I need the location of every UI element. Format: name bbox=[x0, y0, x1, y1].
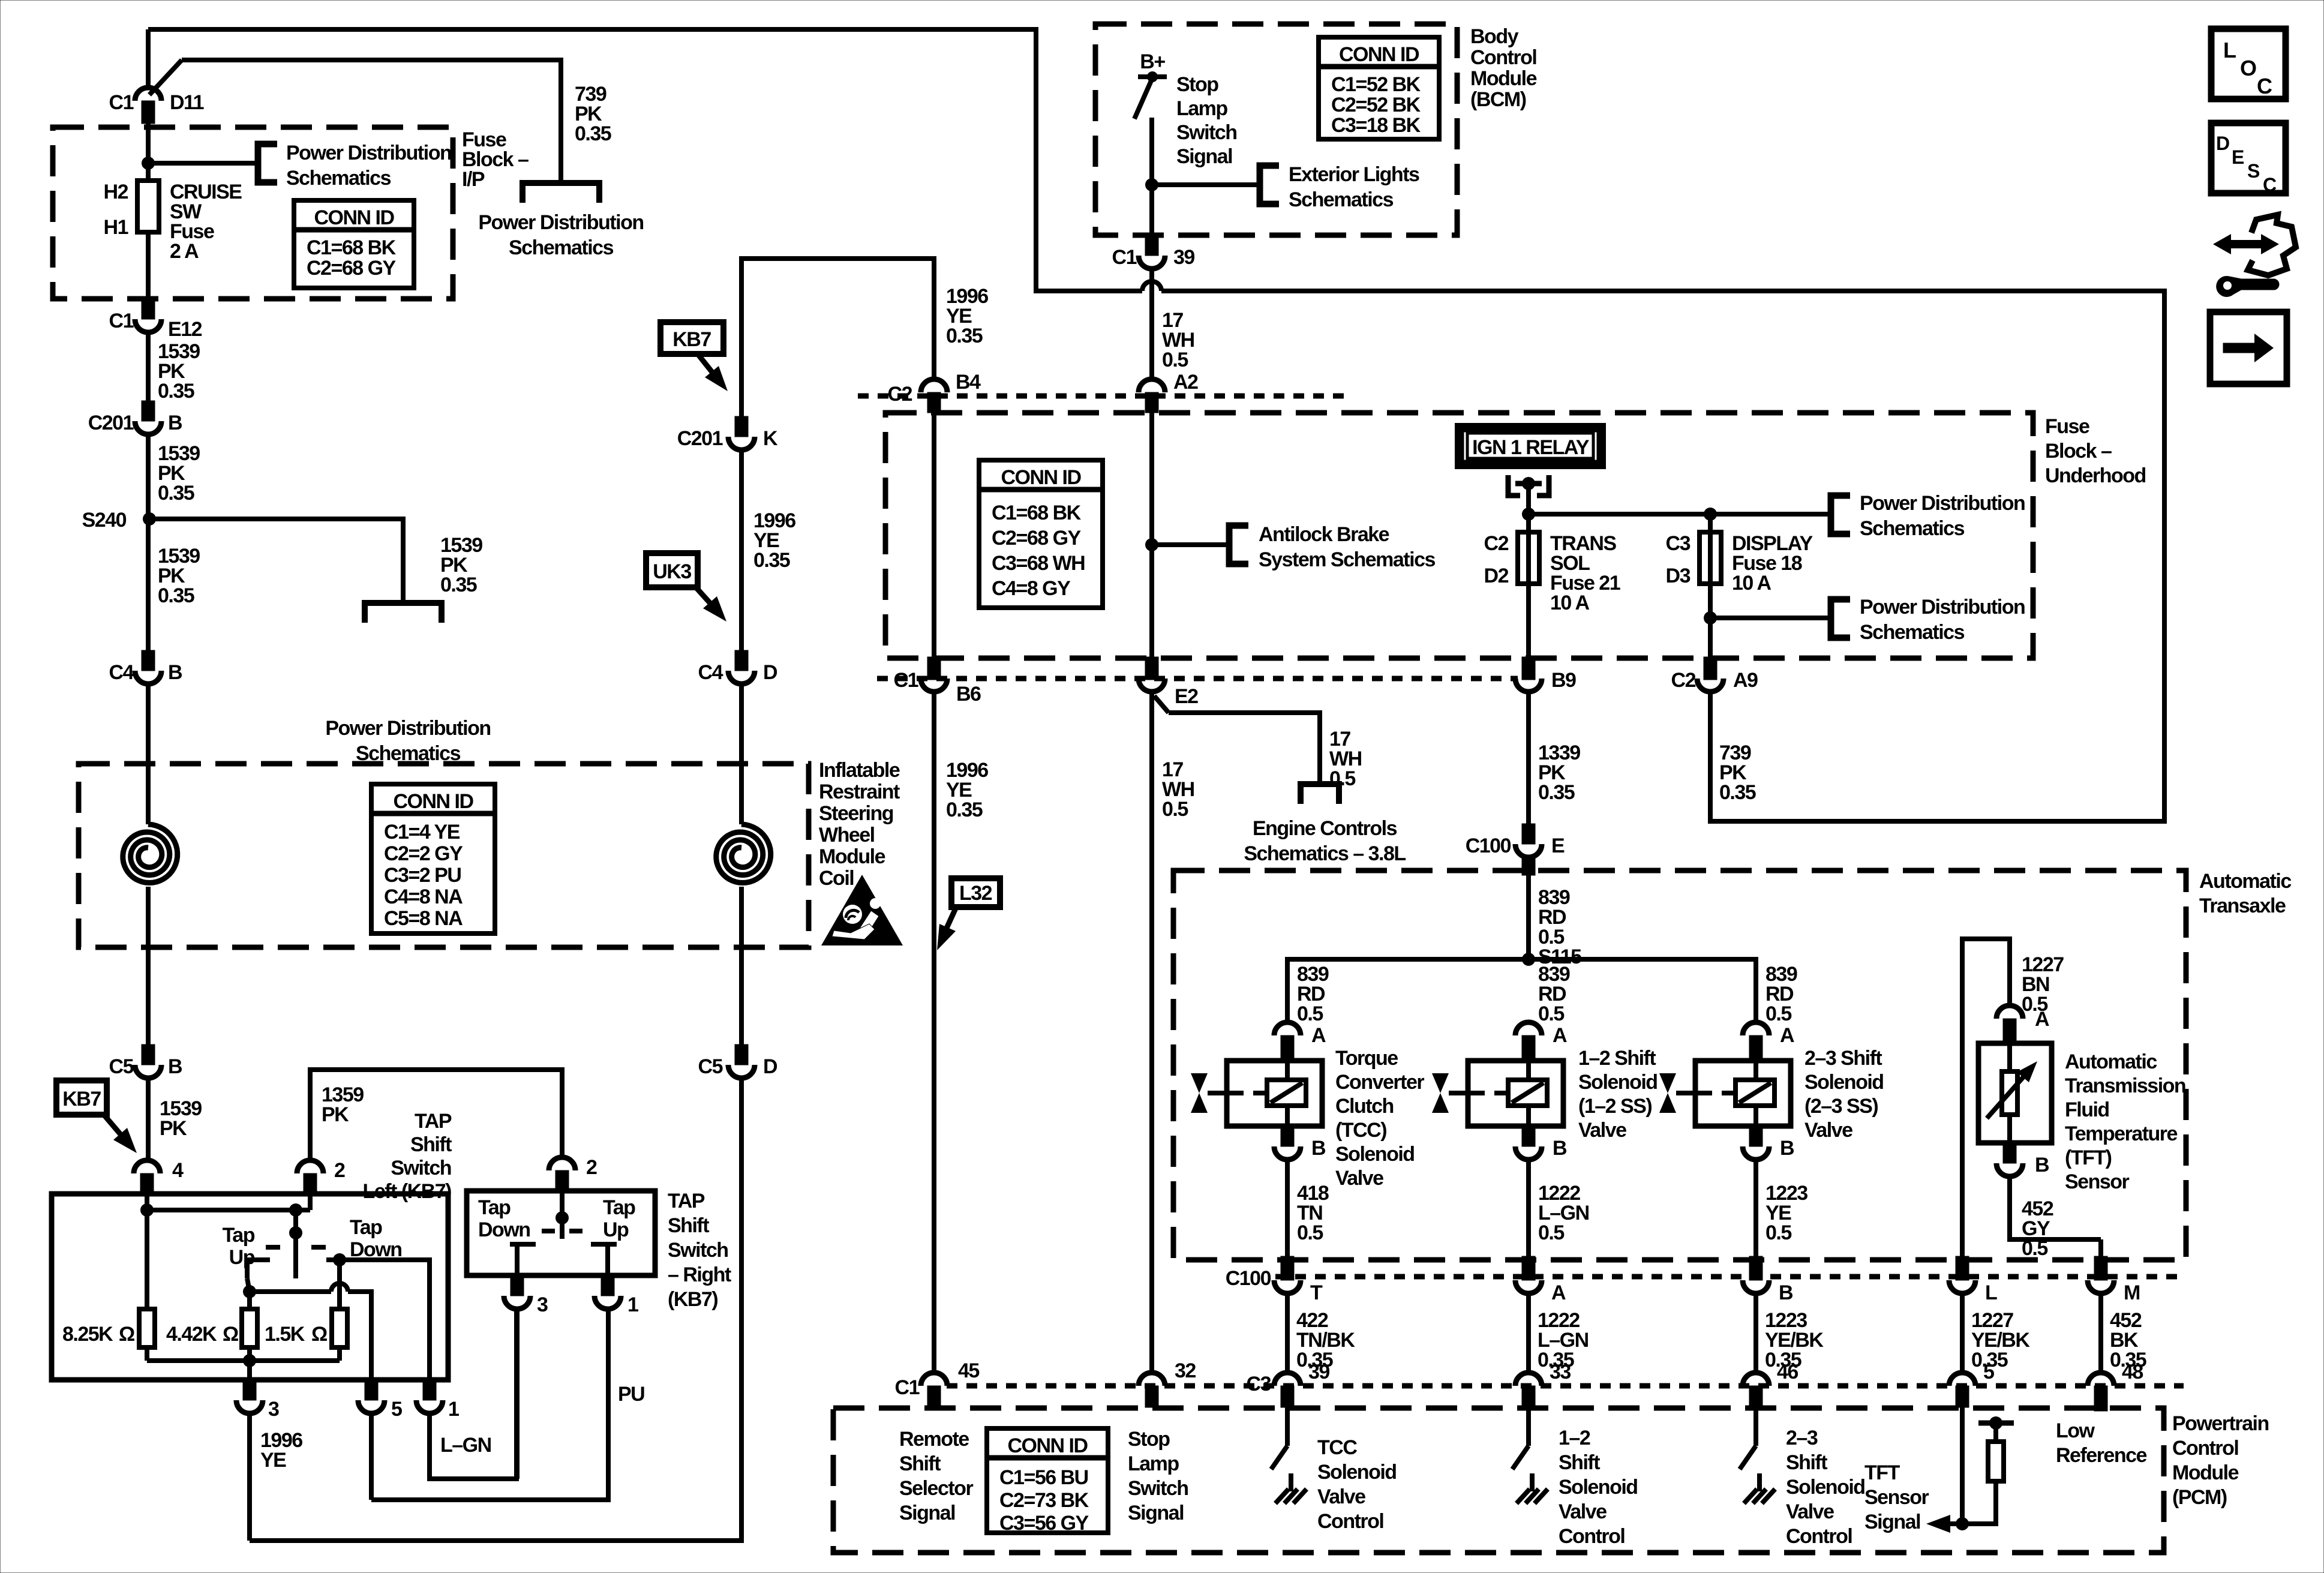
PCM pin 48 bbox=[2088, 1373, 2114, 1386]
svg-text:Switch: Switch bbox=[1176, 121, 1237, 144]
svg-text:C1: C1 bbox=[109, 91, 134, 114]
svg-text:B: B bbox=[2035, 1154, 2049, 1176]
S115 bus bbox=[1287, 959, 1756, 1022]
svg-text:C1: C1 bbox=[109, 310, 134, 332]
1-2 SS pin B bbox=[1522, 1126, 1535, 1146]
connector C100 B bbox=[1749, 1256, 1762, 1280]
svg-text:Power Distribution: Power Distribution bbox=[478, 211, 643, 234]
conn-id box PCM bbox=[987, 1428, 1108, 1533]
svg-text:Valve: Valve bbox=[1786, 1500, 1834, 1523]
svg-text:5: 5 bbox=[1983, 1361, 1994, 1383]
connector C1 E12 bbox=[142, 299, 155, 319]
PCM pullup resistor bbox=[1962, 1481, 1996, 1524]
svg-text:C2=73 BK: C2=73 BK bbox=[999, 1489, 1089, 1512]
svg-text:Stop: Stop bbox=[1176, 73, 1218, 96]
wire A2 down bbox=[1149, 413, 1154, 658]
svg-text:Reference: Reference bbox=[2056, 1444, 2147, 1467]
svg-text:Block –: Block – bbox=[2045, 440, 2112, 463]
svg-text:C3: C3 bbox=[1247, 1373, 1271, 1395]
svg-text:C: C bbox=[2257, 74, 2272, 98]
wire relay to display fuse bbox=[1529, 512, 1710, 517]
connector C2 A9 bbox=[1708, 618, 1713, 658]
resistor 8.25K bbox=[145, 1210, 149, 1309]
svg-text:Fuse: Fuse bbox=[2045, 415, 2089, 438]
svg-text:4: 4 bbox=[172, 1159, 184, 1182]
branch power distribution upper bbox=[1710, 512, 1831, 517]
connector A2 bbox=[1139, 379, 1165, 392]
connector C201 B bbox=[142, 401, 155, 421]
svg-text:PU: PU bbox=[618, 1383, 644, 1406]
svg-text:Transaxle: Transaxle bbox=[2199, 894, 2286, 917]
svg-text:Module: Module bbox=[819, 845, 885, 868]
wire 739 PK bus from I/P fuse block to underhood A9 bbox=[148, 29, 1139, 291]
svg-text:M: M bbox=[2124, 1281, 2140, 1304]
wire B4 to C201K bbox=[741, 259, 934, 416]
svg-text:D3: D3 bbox=[1666, 565, 1691, 587]
svg-text:KB7: KB7 bbox=[672, 328, 711, 351]
connector C100 L bbox=[1956, 1256, 1969, 1280]
svg-text:S240: S240 bbox=[82, 509, 127, 532]
conn-id box BCM bbox=[1319, 37, 1439, 139]
IGN 1 RELAY box bbox=[1455, 423, 1606, 469]
svg-text:Power Distribution: Power Distribution bbox=[325, 717, 490, 740]
svg-text:Schematics: Schematics bbox=[1289, 188, 1394, 211]
goto symbol engine controls bbox=[1301, 784, 1339, 804]
E2 branch to engine controls bbox=[1154, 696, 1169, 713]
2-3 driver switch bbox=[1753, 1407, 1758, 1446]
svg-text:0.35: 0.35 bbox=[575, 122, 611, 145]
svg-text:Solenoid: Solenoid bbox=[1317, 1461, 1397, 1484]
svg-text:C1: C1 bbox=[1112, 246, 1137, 269]
svg-text:Transmission: Transmission bbox=[2065, 1074, 2185, 1097]
conn-id box underhood bbox=[979, 460, 1103, 608]
right tap up contact bbox=[591, 1242, 617, 1247]
connector C5 B bbox=[142, 1044, 155, 1065]
TAP shift switch right box bbox=[467, 1191, 655, 1275]
svg-text:0.5: 0.5 bbox=[2022, 1237, 2047, 1260]
svg-text:CONN ID: CONN ID bbox=[1339, 43, 1419, 66]
svg-text:Valve: Valve bbox=[1578, 1119, 1626, 1142]
svg-text:Schematics: Schematics bbox=[509, 236, 614, 259]
svg-text:E2: E2 bbox=[1175, 685, 1198, 708]
icon vehicle double-arrow bbox=[2213, 234, 2279, 254]
svg-text:C4: C4 bbox=[109, 661, 134, 684]
svg-text:TAP: TAP bbox=[668, 1190, 705, 1212]
svg-text:2–3 Shift: 2–3 Shift bbox=[1804, 1047, 1882, 1070]
svg-text:B6: B6 bbox=[956, 683, 981, 706]
svg-text:C2=68 GY: C2=68 GY bbox=[992, 527, 1082, 550]
svg-text:Schematics: Schematics bbox=[1860, 517, 1965, 540]
svg-text:H1: H1 bbox=[104, 216, 128, 239]
svg-text:Fluid: Fluid bbox=[2065, 1098, 2109, 1121]
pin 1 left sw bbox=[423, 1380, 436, 1400]
svg-text:Signal: Signal bbox=[1176, 145, 1232, 168]
svg-text:Valve: Valve bbox=[1317, 1485, 1365, 1508]
wire tapdown to resistor bbox=[337, 1260, 342, 1309]
icon arrow box bbox=[2210, 312, 2287, 384]
TAP shift switch left box bbox=[52, 1194, 448, 1380]
relay output pins bbox=[1508, 475, 1520, 496]
svg-text:A9: A9 bbox=[1733, 669, 1758, 692]
svg-text:3: 3 bbox=[268, 1398, 279, 1421]
PCM pin 32 bbox=[1139, 1373, 1165, 1386]
svg-text:IGN 1 RELAY: IGN 1 RELAY bbox=[1472, 436, 1590, 459]
svg-text:Switch: Switch bbox=[391, 1157, 451, 1179]
wire into cruise fuse bbox=[146, 124, 151, 181]
PCM pin 46 bbox=[1743, 1373, 1769, 1386]
svg-text:Tap: Tap bbox=[603, 1196, 635, 1219]
airbag warning triangle bbox=[821, 875, 903, 945]
svg-text:C3=56 GY: C3=56 GY bbox=[999, 1512, 1089, 1535]
svg-text:YE: YE bbox=[260, 1449, 286, 1472]
svg-text:C1: C1 bbox=[895, 1376, 920, 1399]
svg-text:I/P: I/P bbox=[462, 168, 485, 191]
svg-text:Temperature: Temperature bbox=[2065, 1122, 2178, 1145]
svg-text:Solenoid: Solenoid bbox=[1786, 1476, 1865, 1499]
svg-text:C2=52 BK: C2=52 BK bbox=[1331, 94, 1421, 116]
svg-text:46: 46 bbox=[1777, 1361, 1798, 1383]
svg-text:0.5: 0.5 bbox=[1297, 1221, 1323, 1244]
svg-text:Signal: Signal bbox=[1864, 1511, 1920, 1533]
conn-id box coil bbox=[371, 784, 495, 933]
fine dash row top bbox=[858, 394, 1344, 399]
connector C100 T bbox=[1281, 1256, 1294, 1280]
svg-text:(1–2 SS): (1–2 SS) bbox=[1578, 1095, 1652, 1118]
svg-text:Solenoid: Solenoid bbox=[1578, 1071, 1658, 1094]
svg-text:Ω: Ω bbox=[311, 1323, 327, 1346]
svg-text:Low: Low bbox=[2056, 1419, 2095, 1442]
svg-text:Control: Control bbox=[1470, 46, 1536, 69]
wire to C1 39 bbox=[1149, 185, 1154, 235]
pin 3 right sw bbox=[511, 1275, 524, 1296]
svg-text:Power Distribution: Power Distribution bbox=[1860, 596, 2025, 619]
svg-text:Tap: Tap bbox=[223, 1224, 255, 1247]
svg-text:C5: C5 bbox=[698, 1055, 723, 1078]
pin 3 left sw bbox=[243, 1380, 256, 1400]
svg-text:C1=56 BU: C1=56 BU bbox=[999, 1466, 1088, 1489]
PCM pin C3 39 bbox=[1274, 1373, 1301, 1386]
svg-text:Shift: Shift bbox=[410, 1133, 452, 1156]
svg-text:B: B bbox=[1780, 1137, 1794, 1160]
svg-text:(TFT): (TFT) bbox=[2065, 1146, 2112, 1169]
svg-text:Solenoid: Solenoid bbox=[1335, 1143, 1415, 1166]
wire tapup to pin5 bbox=[243, 1285, 256, 1298]
svg-text:Clutch: Clutch bbox=[1335, 1095, 1394, 1118]
svg-text:Sensor: Sensor bbox=[2065, 1170, 2130, 1193]
svg-text:Switch: Switch bbox=[668, 1239, 728, 1262]
svg-text:0.5: 0.5 bbox=[1765, 1002, 1791, 1025]
svg-text:PK: PK bbox=[322, 1103, 349, 1126]
svg-text:Signal: Signal bbox=[899, 1502, 955, 1524]
svg-text:1.5K: 1.5K bbox=[265, 1323, 305, 1346]
svg-text:C2: C2 bbox=[1671, 669, 1696, 692]
svg-text:E12: E12 bbox=[168, 318, 202, 341]
PCM pin 5 bbox=[1949, 1373, 1975, 1386]
svg-text:Module: Module bbox=[1470, 67, 1537, 90]
tap down contact bbox=[333, 1253, 346, 1266]
svg-text:Schematics: Schematics bbox=[286, 167, 391, 190]
svg-text:C3=2 PU: C3=2 PU bbox=[384, 864, 461, 887]
svg-text:Converter: Converter bbox=[1335, 1071, 1424, 1094]
svg-text:B: B bbox=[1311, 1137, 1326, 1160]
fuse TRANS SOL 21 bbox=[1518, 532, 1539, 584]
TCC pin B bbox=[1281, 1126, 1294, 1146]
resistor bottom bus bbox=[147, 1358, 340, 1363]
svg-text:Valve: Valve bbox=[1804, 1119, 1852, 1142]
fuse block I/P dashed box bbox=[53, 127, 453, 299]
svg-text:Torque: Torque bbox=[1335, 1047, 1398, 1070]
svg-text:E: E bbox=[2232, 146, 2244, 168]
coil right (clockspring) bbox=[716, 824, 771, 883]
pin 2 left bbox=[297, 1160, 323, 1173]
svg-text:C3=18 BK: C3=18 BK bbox=[1331, 114, 1421, 137]
svg-text:PK: PK bbox=[160, 1117, 187, 1140]
right tap down contact bbox=[510, 1242, 536, 1247]
svg-text:Body: Body bbox=[1470, 25, 1519, 48]
svg-text:Schematics: Schematics bbox=[1860, 621, 1965, 644]
svg-text:Tap: Tap bbox=[478, 1196, 511, 1219]
2-3 SS pin A bbox=[1743, 1022, 1769, 1035]
svg-text:Stop: Stop bbox=[1128, 1428, 1170, 1451]
svg-text:0.35: 0.35 bbox=[158, 482, 194, 505]
svg-text:TFT: TFT bbox=[1864, 1461, 1900, 1484]
svg-text:UK3: UK3 bbox=[653, 560, 691, 583]
automatic transaxle dashed box bbox=[1173, 870, 2186, 1260]
svg-text:Power Distribution: Power Distribution bbox=[1860, 492, 2025, 515]
wire tapdown to pin1 bbox=[340, 1260, 430, 1380]
svg-text:0.35: 0.35 bbox=[946, 798, 983, 821]
svg-text:E: E bbox=[1551, 834, 1565, 857]
svg-text:Control: Control bbox=[1559, 1525, 1625, 1548]
TFT pin A bbox=[1996, 1005, 2023, 1019]
svg-text:Shift: Shift bbox=[899, 1452, 941, 1475]
svg-text:Shift: Shift bbox=[1559, 1451, 1600, 1474]
svg-text:L32: L32 bbox=[959, 882, 992, 905]
svg-text:2–3: 2–3 bbox=[1786, 1427, 1818, 1449]
connector C2 B4 bbox=[921, 379, 947, 392]
right switch mechanism bbox=[560, 1191, 565, 1239]
svg-text:C4=8 NA: C4=8 NA bbox=[384, 885, 463, 908]
svg-text:B: B bbox=[168, 1055, 182, 1078]
connector E2 bbox=[1145, 657, 1158, 680]
svg-text:4.42K: 4.42K bbox=[166, 1323, 217, 1346]
svg-text:Power Distribution: Power Distribution bbox=[286, 142, 451, 164]
svg-text:TCC: TCC bbox=[1317, 1436, 1357, 1459]
1-2 driver switch bbox=[1526, 1407, 1531, 1446]
svg-text:S: S bbox=[2247, 160, 2260, 182]
wire pin5 to right pin1 (PU) bbox=[371, 1309, 608, 1500]
splice S115 bbox=[1522, 953, 1535, 966]
svg-text:– Right: – Right bbox=[668, 1263, 731, 1286]
branch to power distribution bracket bbox=[148, 161, 258, 166]
inflatable restraint coil dashed box bbox=[79, 764, 809, 947]
svg-text:C4=8 GY: C4=8 GY bbox=[992, 577, 1071, 600]
icon DESC box bbox=[2211, 123, 2286, 193]
wire pin4 into box bbox=[145, 1194, 149, 1210]
svg-text:C1=52 BK: C1=52 BK bbox=[1331, 73, 1421, 96]
svg-text:Ω: Ω bbox=[223, 1323, 238, 1346]
fuse block underhood dashed box bbox=[885, 413, 2033, 658]
svg-text:0.35: 0.35 bbox=[158, 584, 194, 607]
connector C100 E bbox=[1522, 824, 1535, 844]
svg-text:Engine Controls: Engine Controls bbox=[1253, 817, 1397, 840]
svg-text:L: L bbox=[2223, 38, 2236, 62]
svg-text:45: 45 bbox=[958, 1359, 979, 1382]
svg-text:Solenoid: Solenoid bbox=[1804, 1071, 1884, 1094]
wire fuse21 to B9 bbox=[1526, 584, 1531, 658]
svg-text:C100: C100 bbox=[1466, 834, 1511, 857]
svg-text:0.35: 0.35 bbox=[1719, 781, 1756, 804]
svg-text:8.25K: 8.25K bbox=[62, 1323, 113, 1346]
fine dash row bottom bbox=[877, 676, 1518, 682]
svg-text:Automatic: Automatic bbox=[2199, 870, 2291, 893]
svg-text:2 A: 2 A bbox=[170, 240, 199, 263]
svg-text:0.35: 0.35 bbox=[440, 574, 477, 596]
svg-text:5: 5 bbox=[391, 1398, 402, 1421]
svg-text:Remote: Remote bbox=[899, 1428, 969, 1451]
svg-text:Signal: Signal bbox=[1128, 1502, 1184, 1524]
connector C1 39 bbox=[1145, 235, 1158, 256]
svg-text:0.35: 0.35 bbox=[1538, 781, 1575, 804]
svg-text:Selector: Selector bbox=[899, 1477, 973, 1500]
svg-text:C100: C100 bbox=[1226, 1267, 1271, 1290]
svg-text:A: A bbox=[1311, 1024, 1326, 1047]
TFT signal node bbox=[1960, 1407, 1965, 1524]
svg-text:Shift: Shift bbox=[1786, 1451, 1827, 1474]
pin 4 bbox=[134, 1160, 160, 1173]
connector B9 bbox=[1522, 657, 1535, 680]
svg-text:B: B bbox=[168, 661, 182, 684]
svg-text:C2=2 GY: C2=2 GY bbox=[384, 842, 463, 865]
svg-text:Restraint: Restraint bbox=[819, 781, 900, 803]
svg-text:Ω: Ω bbox=[119, 1323, 134, 1346]
svg-text:Up: Up bbox=[603, 1218, 629, 1241]
svg-text:Shift: Shift bbox=[668, 1214, 709, 1237]
connector C4 B bbox=[142, 650, 155, 671]
solenoid 1-2 SS bbox=[1468, 1061, 1563, 1126]
PCM pin 33 bbox=[1515, 1373, 1542, 1386]
wire L to TFT A bbox=[1962, 939, 2010, 1239]
svg-text:System Schematics: System Schematics bbox=[1259, 548, 1435, 571]
coil left (clockspring) bbox=[123, 824, 178, 883]
fine dash row PCM bbox=[947, 1383, 2184, 1389]
TFT pin B bbox=[2003, 1143, 2016, 1163]
svg-text:2: 2 bbox=[586, 1156, 597, 1179]
wire S240 branch right bbox=[149, 519, 403, 603]
wire pin2-pin2 jumper bbox=[310, 1070, 562, 1160]
goto symbol Power Distribution (S240) bbox=[365, 603, 442, 623]
solenoid TCC bbox=[1227, 1061, 1322, 1126]
svg-text:O: O bbox=[2240, 56, 2256, 80]
svg-text:Down: Down bbox=[478, 1218, 530, 1241]
svg-text:0.5: 0.5 bbox=[1162, 349, 1188, 371]
svg-text:Valve: Valve bbox=[1559, 1500, 1607, 1523]
svg-text:Control: Control bbox=[1317, 1510, 1383, 1533]
label UK3 bbox=[646, 553, 698, 587]
icon wrench bbox=[2217, 276, 2279, 296]
PCM pin C1 45 bbox=[921, 1373, 947, 1386]
svg-text:Inflatable: Inflatable bbox=[819, 759, 900, 782]
svg-text:CONN ID: CONN ID bbox=[314, 206, 394, 229]
svg-text:Steering: Steering bbox=[819, 802, 893, 825]
goto symbol Power Distribution (top) bbox=[523, 183, 599, 203]
svg-text:1: 1 bbox=[448, 1398, 459, 1421]
svg-text:D: D bbox=[763, 1055, 777, 1078]
svg-text:Valve: Valve bbox=[1335, 1167, 1383, 1190]
connector C1 D11 bbox=[146, 29, 151, 88]
switch common rail bbox=[140, 1203, 154, 1217]
solenoid 2-3 SS bbox=[1695, 1061, 1791, 1126]
svg-text:0.5: 0.5 bbox=[1329, 767, 1355, 790]
1-2 SS pin A bbox=[1515, 1022, 1542, 1035]
svg-text:A2: A2 bbox=[1173, 371, 1198, 394]
svg-text:Control: Control bbox=[1786, 1525, 1852, 1548]
svg-text:Module: Module bbox=[2172, 1461, 2239, 1484]
tap up/down switch left bbox=[293, 1210, 298, 1278]
connector C201 K bbox=[735, 416, 748, 437]
svg-text:B: B bbox=[1553, 1137, 1567, 1160]
svg-text:A: A bbox=[1553, 1024, 1567, 1047]
svg-text:B: B bbox=[1779, 1281, 1793, 1304]
svg-text:0.35: 0.35 bbox=[158, 380, 194, 403]
resistor 4.42K bbox=[247, 1292, 252, 1309]
svg-text:C1=4 YE: C1=4 YE bbox=[384, 821, 460, 843]
svg-text:Solenoid: Solenoid bbox=[1559, 1476, 1638, 1499]
svg-text:39: 39 bbox=[1308, 1361, 1329, 1383]
svg-text:C: C bbox=[2263, 174, 2277, 196]
svg-text:(2–3 SS): (2–3 SS) bbox=[1804, 1095, 1878, 1118]
svg-text:Sensor: Sensor bbox=[1864, 1486, 1929, 1509]
svg-text:Schematics – 3.8L: Schematics – 3.8L bbox=[1244, 842, 1406, 865]
svg-text:C201: C201 bbox=[677, 427, 723, 450]
connector C1 B6 bbox=[932, 413, 936, 658]
pin 1 right sw bbox=[601, 1275, 614, 1296]
stop lamp switch blade bbox=[1134, 78, 1152, 119]
svg-text:TAP: TAP bbox=[415, 1110, 452, 1133]
icon LOC box bbox=[2211, 29, 2286, 99]
svg-text:Exterior Lights: Exterior Lights bbox=[1289, 163, 1419, 186]
svg-text:1–2 Shift: 1–2 Shift bbox=[1578, 1047, 1656, 1070]
svg-text:Coil: Coil bbox=[819, 867, 854, 890]
svg-text:B9: B9 bbox=[1551, 669, 1576, 692]
svg-text:L–GN: L–GN bbox=[440, 1434, 491, 1457]
svg-text:A: A bbox=[2035, 1008, 2049, 1031]
svg-text:33: 33 bbox=[1550, 1361, 1571, 1383]
wire 739 PK branch to Power Distribution bbox=[182, 60, 561, 183]
svg-text:Powertrain: Powertrain bbox=[2172, 1412, 2269, 1435]
svg-text:Tap: Tap bbox=[350, 1216, 382, 1239]
svg-text:Automatic: Automatic bbox=[2065, 1050, 2157, 1073]
svg-text:H2: H2 bbox=[104, 181, 128, 203]
BCM dashed box bbox=[1095, 24, 1457, 235]
svg-text:48: 48 bbox=[2122, 1361, 2143, 1383]
branch power distribution lower bbox=[1710, 616, 1831, 620]
svg-text:0.5: 0.5 bbox=[1538, 1221, 1564, 1244]
svg-text:D: D bbox=[763, 661, 777, 684]
svg-text:10 A: 10 A bbox=[1732, 572, 1771, 595]
svg-text:0.5: 0.5 bbox=[1538, 1002, 1564, 1025]
svg-text:0.35: 0.35 bbox=[753, 549, 790, 572]
svg-text:0.5: 0.5 bbox=[1162, 798, 1188, 821]
svg-text:B+: B+ bbox=[1140, 50, 1165, 73]
svg-text:1: 1 bbox=[627, 1293, 638, 1316]
svg-text:C2: C2 bbox=[888, 383, 912, 406]
junction to exterior lights bbox=[1145, 178, 1158, 191]
svg-text:K: K bbox=[763, 427, 778, 450]
svg-text:Lamp: Lamp bbox=[1128, 1452, 1179, 1475]
TFT sensor box bbox=[1978, 1043, 2052, 1143]
svg-text:CONN ID: CONN ID bbox=[1007, 1434, 1088, 1457]
